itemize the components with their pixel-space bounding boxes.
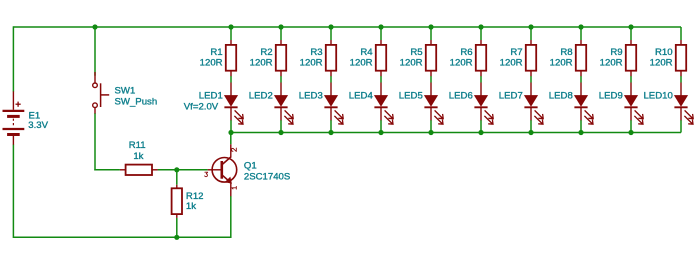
svg-text:R6: R6 xyxy=(460,47,472,58)
svg-text:120R: 120R xyxy=(600,57,623,68)
junction top rail / R5 xyxy=(428,24,433,29)
LED LED2 xyxy=(274,83,293,125)
junction LED rail / LED7 xyxy=(528,130,533,135)
svg-text:120R: 120R xyxy=(350,57,373,68)
wire bottom rail xyxy=(13,236,230,238)
wire R10 to LED10 xyxy=(680,76,682,83)
wire top rail to R9 xyxy=(630,27,632,40)
junction top rail / R4 xyxy=(378,24,383,29)
LED LED1 xyxy=(224,83,243,125)
svg-text:120R: 120R xyxy=(300,57,323,68)
wire R11 to junction xyxy=(158,169,177,171)
wire R8 to LED8 xyxy=(580,76,582,83)
junction top rail / R6 xyxy=(478,24,483,29)
junction switch column / top rail xyxy=(92,24,97,29)
resistor R3 xyxy=(326,40,336,76)
svg-text:120R: 120R xyxy=(400,57,423,68)
LED LED4 xyxy=(374,83,393,125)
pin number 3 (base) xyxy=(205,172,208,176)
wire junction to Q1 base xyxy=(177,169,208,171)
wire R1 to LED1 xyxy=(230,76,232,83)
svg-text:R5: R5 xyxy=(410,47,422,58)
resistor R6 xyxy=(476,40,486,76)
LED LED7 xyxy=(524,83,543,125)
wire left rail upper xyxy=(12,26,14,91)
wire top rail to R5 xyxy=(430,27,432,40)
LED LED9 xyxy=(624,83,643,125)
svg-text:R8: R8 xyxy=(560,47,572,58)
junction LED rail / LED5 xyxy=(428,130,433,135)
resistor R4 xyxy=(376,40,386,76)
junction top rail / R9 xyxy=(628,24,633,29)
resistor R8 xyxy=(576,40,586,76)
wire R12 bottom to bottom rail xyxy=(176,218,178,238)
resistor R12 xyxy=(172,185,182,218)
wire top rail to R7 xyxy=(530,27,532,40)
resistor R5 xyxy=(426,40,436,76)
LED LED6 xyxy=(474,83,493,125)
svg-text:R1: R1 xyxy=(210,47,222,58)
wire R3 to LED3 xyxy=(330,76,332,83)
junction LED rail / LED2 xyxy=(278,130,283,135)
junction top rail / R8 xyxy=(578,24,583,29)
svg-text:Q1: Q1 xyxy=(244,160,257,171)
LED LED5 xyxy=(424,83,443,125)
junction R12 / bottom rail xyxy=(174,235,179,240)
LED LED3 xyxy=(324,83,343,125)
junction top rail / R3 xyxy=(328,24,333,29)
svg-text:LED6: LED6 xyxy=(449,90,473,101)
svg-text:120R: 120R xyxy=(250,57,273,68)
wire collector to LED rail xyxy=(230,133,232,145)
svg-text:R9: R9 xyxy=(610,47,622,58)
svg-text:120R: 120R xyxy=(650,57,673,68)
wire LED5 to bottom LED rail xyxy=(430,120,432,133)
wire LED3 to bottom LED rail xyxy=(330,120,332,133)
svg-text:SW_Push: SW_Push xyxy=(115,97,158,108)
wire LED1 to bottom LED rail xyxy=(230,120,232,133)
battery E1 xyxy=(3,91,25,144)
svg-text:Vf=2.0V: Vf=2.0V xyxy=(184,102,219,113)
wire switch to R11 xyxy=(94,169,120,171)
svg-text:3.3V: 3.3V xyxy=(28,120,48,131)
wire R4 to LED4 xyxy=(380,76,382,83)
resistor R10 xyxy=(676,40,686,76)
svg-text:R7: R7 xyxy=(510,47,522,58)
junction top rail / R7 xyxy=(528,24,533,29)
junction LED rail / LED9 xyxy=(628,130,633,135)
junction LED rail / LED1 xyxy=(228,130,233,135)
junction LED rail / LED4 xyxy=(378,130,383,135)
wire LED7 to bottom LED rail xyxy=(530,120,532,133)
junction LED rail / LED6 xyxy=(478,130,483,135)
wire R6 to LED6 xyxy=(480,76,482,83)
svg-text:SW1: SW1 xyxy=(115,85,136,96)
svg-text:LED1: LED1 xyxy=(199,90,223,101)
svg-text:LED3: LED3 xyxy=(299,90,323,101)
wire left rail lower xyxy=(12,145,14,239)
wire top rail xyxy=(13,26,681,28)
resistor R11 xyxy=(120,165,158,175)
svg-text:R11: R11 xyxy=(129,140,146,151)
svg-text:1k: 1k xyxy=(186,201,196,212)
svg-text:LED10: LED10 xyxy=(643,90,672,101)
wire LED bottom rail xyxy=(231,132,681,134)
resistor R1 xyxy=(226,40,236,76)
wire R5 to LED5 xyxy=(430,76,432,83)
wire R9 to LED9 xyxy=(630,76,632,83)
svg-text:120R: 120R xyxy=(500,57,523,68)
wire LED2 to bottom LED rail xyxy=(280,120,282,133)
wire R2 to LED2 xyxy=(280,76,282,83)
wire LED4 to bottom LED rail xyxy=(380,120,382,133)
wire emitter to bottom rail xyxy=(230,196,232,238)
junction R11 / R12 / Q1 base xyxy=(174,167,179,172)
svg-text:R4: R4 xyxy=(360,47,373,58)
pin number 1 (emitter) xyxy=(232,187,236,190)
svg-text:R2: R2 xyxy=(260,47,272,58)
svg-text:R10: R10 xyxy=(655,47,673,58)
svg-text:120R: 120R xyxy=(550,57,573,68)
svg-text:1k: 1k xyxy=(133,151,143,162)
svg-text:2SC1740S: 2SC1740S xyxy=(244,172,290,183)
transistor Q1 xyxy=(208,144,237,196)
wire top rail to R1 xyxy=(230,27,232,40)
LED LED10 xyxy=(674,83,693,125)
switch SW1 xyxy=(93,72,110,114)
svg-text:120R: 120R xyxy=(450,57,473,68)
wire top rail to R2 xyxy=(280,27,282,40)
wire top rail to R3 xyxy=(330,27,332,40)
svg-text:R3: R3 xyxy=(310,47,322,58)
wire junction to R12 top xyxy=(176,170,178,185)
wire LED8 to bottom LED rail xyxy=(580,120,582,133)
wire R7 to LED7 xyxy=(530,76,532,83)
pin number 2 (collector) xyxy=(231,148,236,151)
wire top rail to R6 xyxy=(480,27,482,40)
wire switch column lower xyxy=(94,113,96,171)
svg-text:LED9: LED9 xyxy=(599,90,623,101)
resistor R2 xyxy=(276,40,286,76)
junction LED rail / LED8 xyxy=(578,130,583,135)
svg-text:LED4: LED4 xyxy=(349,90,374,101)
wire switch column upper xyxy=(94,27,96,76)
svg-text:LED5: LED5 xyxy=(399,90,423,101)
wire LED6 to bottom LED rail xyxy=(480,120,482,133)
svg-text:120R: 120R xyxy=(200,57,223,68)
wire top rail to R10 xyxy=(680,27,682,40)
LED LED8 xyxy=(574,83,593,125)
junction LED rail / LED3 xyxy=(328,130,333,135)
junction top rail / R2 xyxy=(278,24,283,29)
wire top rail to R8 xyxy=(580,27,582,40)
resistor R9 xyxy=(626,40,636,76)
wire LED10 to bottom LED rail xyxy=(680,120,682,133)
svg-text:LED2: LED2 xyxy=(249,90,273,101)
resistor R7 xyxy=(526,40,536,76)
svg-text:LED8: LED8 xyxy=(549,90,573,101)
wire LED9 to bottom LED rail xyxy=(630,120,632,133)
svg-text:LED7: LED7 xyxy=(499,90,523,101)
wire top rail to R4 xyxy=(380,27,382,40)
junction top rail / R1 xyxy=(228,24,233,29)
